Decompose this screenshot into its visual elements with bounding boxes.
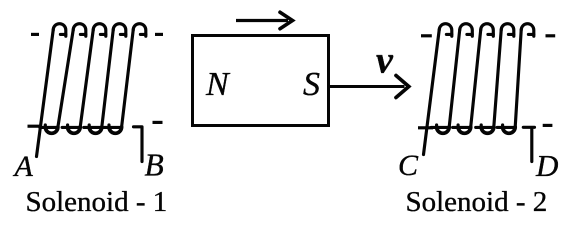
svg-text:Solenoid - 1: Solenoid - 1	[26, 186, 168, 218]
svg-text:N: N	[205, 66, 231, 103]
svg-text:Solenoid - 2: Solenoid - 2	[406, 186, 548, 218]
svg-text:C: C	[398, 149, 419, 182]
svg-text:D: D	[535, 148, 558, 183]
svg-text:B: B	[145, 148, 164, 183]
svg-text:A: A	[13, 150, 34, 183]
svg-text:S: S	[303, 66, 320, 103]
svg-text:v: v	[376, 40, 394, 82]
